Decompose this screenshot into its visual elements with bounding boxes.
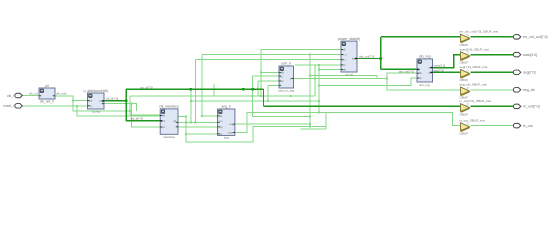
svg-text:din_reg: din_reg [420, 83, 431, 87]
wire obuf4 feed y89.8 [387, 78, 460, 89]
svg-text:OBUF: OBUF [460, 132, 469, 136]
wire clk to power_stat clk [261, 49, 341, 51]
bus power_stat dat_out [357, 58, 381, 60]
svg-text:din_reg: din_reg [419, 55, 431, 59]
wire y75.4 parallel [310, 75, 377, 78]
bus vertical x126.2 [125, 89, 127, 121]
wire seg_b out2 to obuf6 [235, 112, 460, 132]
bus to clk_interface in2 [126, 120, 160, 122]
output port err_cnt_out [513, 35, 520, 40]
wire clk riser x129.8 to clk_interface clk [130, 96, 160, 115]
block u_debounce U2 [88, 93, 105, 109]
wire pll clk_out1 to u_debounce clk [55, 96, 88, 101]
wire clk_interface out riser x190.9 [190, 89, 192, 122]
svg-text:interface: interface [163, 135, 175, 139]
svg-text:rst: rst [419, 77, 422, 80]
obuf OBUF6 [461, 123, 470, 132]
obuf OBUF4 [461, 87, 470, 96]
svg-text:clk_i: clk_i [7, 94, 14, 98]
wire line B riser x195.5 [195, 60, 197, 123]
wire reset trunk to clk_interface [77, 106, 160, 116]
svg-text:dat_out[7:0]: dat_out[7:0] [359, 54, 374, 58]
svg-text:cnt_a[7:0]: cnt_a[7:0] [130, 117, 143, 121]
block power_stat U6 [341, 41, 357, 72]
svg-text:err_cnt_out[7:0]_OBUF_inst: err_cnt_out[7:0]_OBUF_inst [460, 30, 499, 34]
wire vertical x326 [325, 112, 327, 129]
bus y89.2 long [126, 88, 263, 90]
wire clk line y96.2 [130, 95, 315, 97]
output port seg_clk [513, 88, 520, 93]
svg-text:seg_b: seg_b [221, 105, 231, 109]
svg-text:seg: seg [224, 135, 229, 139]
bus port row1 wire [471, 36, 514, 38]
svg-text:seg: seg [229, 123, 234, 126]
wire riser x186.1 bottom loop [186, 117, 326, 143]
svg-text:OBUF: OBUF [460, 112, 469, 116]
output port scan [513, 52, 520, 57]
output port tx_out [513, 123, 520, 128]
wire line y100.9 [191, 100, 319, 102]
bus y36.9 to obuf1 [381, 36, 460, 38]
svg-text:dat_out[7:0]: dat_out[7:0] [399, 70, 414, 74]
svg-text:ctl_rtl: ctl_rtl [345, 73, 353, 77]
svg-text:u_debounce(rtl): u_debounce(rtl) [83, 89, 108, 93]
wire stub y116.5 [178, 116, 186, 118]
wire clk_i port to pll [22, 95, 40, 97]
wire uart in3 stub [258, 80, 279, 82]
wire clk branch to uart clk [261, 72, 279, 74]
wire line A riser to seg_b in1 [202, 55, 218, 116]
svg-text:uart_b: uart_b [281, 62, 291, 66]
svg-text:dat: dat [352, 58, 356, 61]
svg-text:tx_out: tx_out [523, 124, 533, 128]
wire y116.3 [253, 115, 310, 117]
bus din_reg out2 to obuf3 [433, 71, 460, 73]
svg-text:seg_clk_OBUF_inst: seg_clk_OBUF_inst [460, 83, 487, 87]
wire port row6 tx_out [471, 125, 514, 127]
wires group [22, 37, 514, 142]
block clk_interface U3 [160, 109, 178, 134]
labels group [3, 30, 547, 140]
wire uart tx out to din_reg in2 [294, 73, 418, 78]
svg-text:seg_clk: seg_clk [523, 88, 535, 92]
svg-text:clk_wiz_0: clk_wiz_0 [40, 100, 54, 104]
junction dots dark [125, 100, 128, 103]
wire clk_interface out2 to seg_b in3 [178, 126, 218, 128]
svg-text:cnt: cnt [162, 120, 166, 123]
block pll U1 [39, 88, 55, 99]
labels block pin names [89, 49, 431, 136]
wire clk_interface out to seg_b in2 [178, 121, 218, 123]
svg-text:uart_rx_reg: uart_rx_reg [278, 89, 294, 93]
wire segment y64.9 to power_stat in4 [295, 64, 341, 66]
bus y106.2 to obuf5 [264, 105, 460, 107]
svg-text:scan[2:0]: scan[2:0] [434, 63, 446, 67]
wire riser x268.2 to uart in4 [268, 85, 279, 101]
svg-text:cnt_a[7:0]: cnt_a[7:0] [140, 85, 153, 89]
obuf OBUF5 [461, 104, 470, 113]
input port reset_i [15, 104, 22, 109]
wire line A y54.5 to power_stat in2 [202, 54, 341, 56]
svg-text:seg[7:0]: seg[7:0] [434, 68, 444, 72]
svg-text:power_stat(rtl): power_stat(rtl) [338, 37, 360, 41]
wire uart in2 stub [253, 75, 279, 77]
svg-text:d_trig: d_trig [92, 110, 100, 114]
svg-text:rst: rst [162, 126, 165, 129]
svg-text:rst: rst [89, 105, 92, 108]
svg-text:m_t: m_t [343, 54, 347, 57]
svg-text:reset_i: reset_i [3, 104, 14, 108]
wire clk trunk vertical x72.8 [73, 101, 130, 111]
bus port row3 wire [471, 71, 514, 73]
svg-text:clk_interface: clk_interface [159, 105, 179, 109]
wire seg_b out1 y124.2 [235, 123, 310, 125]
block din_reg U7 [417, 59, 433, 82]
svg-text:cnt: cnt [219, 120, 223, 123]
svg-text:m_out[7:0]: m_out[7:0] [523, 105, 540, 109]
svg-text:clk_out1: clk_out1 [56, 91, 67, 95]
svg-text:m_out[7:0]_OBUF_inst: m_out[7:0]_OBUF_inst [460, 99, 492, 103]
bus riser x380.8 [380, 37, 382, 70]
svg-text:tx_out_OBUF_inst: tx_out_OBUF_inst [460, 118, 485, 122]
wire port row4 seg_clk [471, 89, 514, 91]
wire y129.1 stub [301, 128, 327, 130]
bus din_reg out1 to obuf2 [433, 55, 460, 68]
blocks group [15, 34, 521, 135]
svg-text:d_i: d_i [343, 59, 347, 62]
input port clk_i [15, 93, 22, 98]
bus u_debounce cnt out [104, 100, 126, 102]
output port seg [513, 70, 520, 75]
svg-text:OBUF: OBUF [460, 78, 469, 82]
wire y85.5 to din_reg in3 [319, 78, 417, 86]
junction dots light [72, 100, 74, 102]
svg-text:OBUF: OBUF [460, 61, 469, 65]
wire short vertical x213.9 [213, 84, 215, 96]
wire long vertical x309.8 [309, 55, 311, 127]
svg-text:seg[7:0]_OBUF_inst: seg[7:0]_OBUF_inst [460, 65, 488, 69]
wire riser x257.9 to uart in3 [257, 81, 259, 96]
svg-text:scan: scan [228, 131, 234, 134]
wire clk riser x261.1 [260, 50, 262, 97]
obuf OBUF1 [461, 34, 470, 43]
block uart_b U5 [279, 66, 294, 88]
svg-text:scan[2:0]: scan[2:0] [523, 53, 537, 57]
svg-text:rst: rst [343, 64, 346, 67]
wire line B y59.7 to power_stat in3 [196, 59, 342, 61]
svg-text:clk_in1: clk_in1 [29, 91, 38, 95]
svg-text:rst: rst [219, 133, 222, 136]
obuf OBUF3 [461, 70, 470, 79]
output port m_out [513, 104, 520, 109]
wire obuf6 vertical x252.7 [252, 76, 254, 116]
svg-text:seg[7:0]: seg[7:0] [523, 71, 535, 75]
wire reset_i to u_debounce rst [22, 105, 88, 107]
wire riser x314.8 [314, 65, 316, 96]
obuf OBUF2 [461, 52, 470, 61]
svg-text:err_cnt_out[7:0]: err_cnt_out[7:0] [523, 35, 548, 39]
block seg_b U4 [218, 109, 235, 135]
bus branch to din_reg in1 [381, 68, 417, 70]
svg-text:scan[2:0]_OBUF_inst: scan[2:0]_OBUF_inst [460, 47, 490, 51]
wire seg_b in4 stub [186, 133, 217, 135]
bus drop x263.5 [263, 89, 265, 106]
svg-text:OBUF: OBUF [460, 43, 469, 47]
svg-text:cnt_a[7:0]: cnt_a[7:0] [106, 97, 119, 101]
wire riser x131.4 to clk_interface rst [131, 104, 160, 127]
svg-text:rst: rst [281, 80, 284, 83]
wire u_debounce out2 [104, 104, 137, 111]
bus port row2 wire [471, 54, 514, 56]
svg-text:cnt: cnt [99, 100, 103, 103]
wire vertical x318.9 [318, 65, 320, 113]
wire power_stat in5 stub [319, 69, 341, 71]
bus port row5 wire [471, 105, 514, 107]
svg-text:pll: pll [45, 84, 49, 88]
